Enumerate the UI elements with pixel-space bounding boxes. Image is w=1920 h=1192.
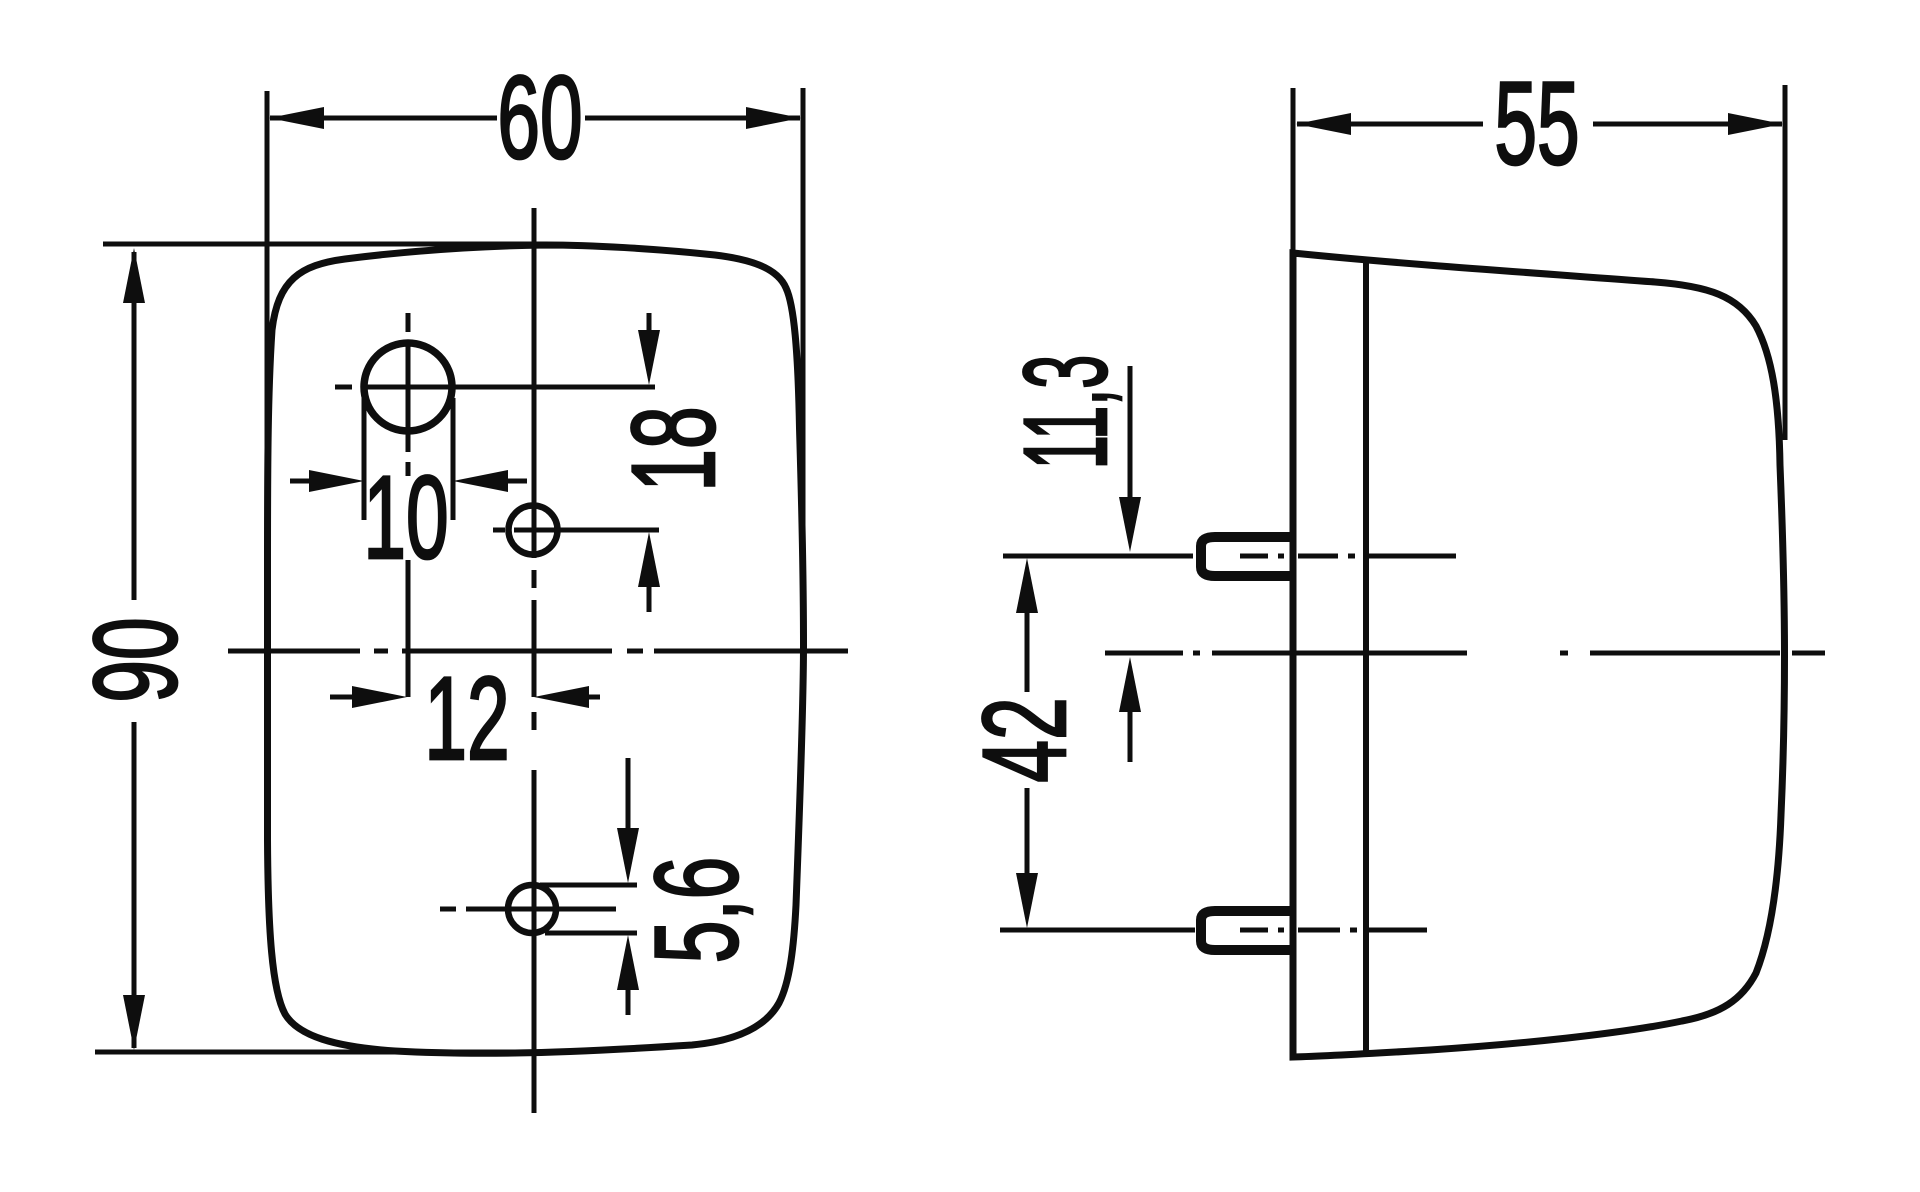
svg-text:10: 10 bbox=[363, 452, 448, 584]
svg-text:90: 90 bbox=[70, 617, 202, 702]
svg-text:55: 55 bbox=[1494, 58, 1579, 190]
svg-text:11,3: 11,3 bbox=[1000, 355, 1132, 469]
svg-text:60: 60 bbox=[497, 52, 582, 184]
svg-text:5,6: 5,6 bbox=[631, 857, 763, 964]
svg-text:42: 42 bbox=[959, 697, 1091, 782]
svg-text:12: 12 bbox=[424, 653, 509, 785]
svg-text:18: 18 bbox=[608, 406, 740, 491]
